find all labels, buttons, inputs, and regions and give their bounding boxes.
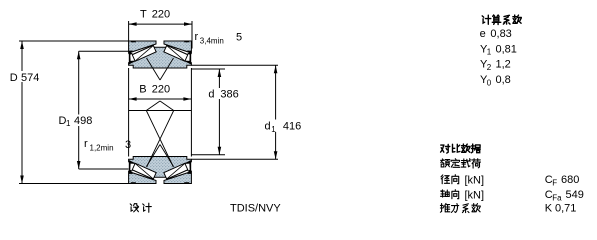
svg-text:F: F: [552, 179, 557, 188]
svg-text:220: 220: [152, 84, 170, 96]
diamond top: [146, 101, 160, 111]
label r1,2min 3: [84, 138, 131, 153]
svg-text:d: d: [208, 89, 214, 101]
svg-text:498: 498: [74, 115, 92, 127]
svg-text:1: 1: [487, 48, 492, 57]
right panel: 对比数据 (bold title): [441, 144, 481, 153]
推: [440, 203, 449, 212]
dimension D: [7, 41, 129, 184]
svg-text:1,2min: 1,2min: [90, 144, 114, 153]
right panel: factor rows: [480, 28, 517, 87]
svg-text:D: D: [10, 72, 18, 84]
dimension D1: [56, 51, 129, 169]
right panel: 径向 [kN]: [441, 175, 459, 184]
bottom bearing section (mirror): [129, 157, 192, 185]
向: [452, 175, 459, 184]
right panel: 推力系数: [440, 203, 480, 212]
svg-text:386: 386: [220, 89, 238, 101]
算: [492, 15, 501, 24]
额: [441, 159, 450, 167]
荷: [472, 159, 481, 168]
svg-text:0: 0: [487, 78, 492, 87]
svg-text:B: B: [139, 84, 146, 96]
svg-text:r: r: [195, 31, 199, 43]
向: [452, 190, 459, 199]
svg-text:[kN]: [kN]: [465, 175, 485, 187]
据: [471, 144, 480, 153]
设: [130, 204, 138, 212]
svg-text:1: 1: [271, 125, 276, 134]
系: [462, 204, 469, 213]
数: [472, 204, 480, 212]
svg-text:3: 3: [125, 139, 131, 151]
bottom captions: 设计 (hand-drawn glyphs): [130, 203, 151, 212]
dimension d1: [191, 65, 301, 159]
top bearing section: [129, 41, 192, 69]
right panel: load values: [545, 174, 584, 214]
系: [503, 15, 510, 24]
力: [451, 204, 458, 213]
svg-text:T: T: [140, 9, 147, 21]
svg-text:220: 220: [152, 9, 170, 21]
svg-text:1,2: 1,2: [496, 59, 511, 71]
right panel: 轴向 [kN]: [441, 190, 459, 199]
svg-text:549: 549: [566, 189, 584, 201]
svg-text:416: 416: [283, 121, 301, 133]
svg-text:1: 1: [66, 119, 71, 128]
svg-text:e: e: [480, 28, 486, 40]
dimension d: [191, 69, 238, 155]
数: [462, 144, 470, 152]
svg-text:3,4min: 3,4min: [200, 37, 224, 46]
svg-text:680: 680: [561, 174, 579, 186]
label r3,4min 5: [195, 31, 243, 46]
svg-text:0,81: 0,81: [496, 43, 517, 55]
horizontal bore line: [129, 110, 192, 112]
对: [441, 145, 450, 154]
svg-text:K: K: [545, 202, 553, 214]
lower V (mirror): [147, 145, 161, 167]
计: [143, 203, 152, 212]
定: [451, 159, 460, 168]
svg-text:TDIS/NVY: TDIS/NVY: [230, 202, 281, 214]
轴: [441, 190, 450, 197]
bore side lines of section: [128, 68, 130, 157]
right panel: 计算系数 (bold title): [482, 15, 521, 24]
dimension B: [129, 84, 192, 101]
径: [441, 175, 450, 184]
数: [513, 15, 521, 23]
svg-text:0,83: 0,83: [490, 28, 511, 40]
载: [461, 159, 470, 167]
svg-text:Fa: Fa: [552, 194, 562, 203]
svg-text:2: 2: [487, 63, 492, 72]
svg-text:d: d: [265, 121, 271, 133]
svg-text:0,71: 0,71: [555, 202, 576, 214]
svg-text:574: 574: [21, 72, 39, 84]
svg-text:r: r: [84, 138, 88, 150]
比: [453, 144, 460, 152]
right panel: 额定载荷: [441, 159, 481, 168]
svg-text:5: 5: [236, 32, 242, 44]
diamond bottom X with tails: [146, 111, 173, 168]
pressure cone apex lines: upper V: [147, 58, 161, 80]
svg-text:[kN]: [kN]: [465, 190, 485, 202]
dimension T: [129, 9, 192, 49]
svg-text:0,8: 0,8: [496, 74, 511, 86]
计: [482, 15, 491, 24]
